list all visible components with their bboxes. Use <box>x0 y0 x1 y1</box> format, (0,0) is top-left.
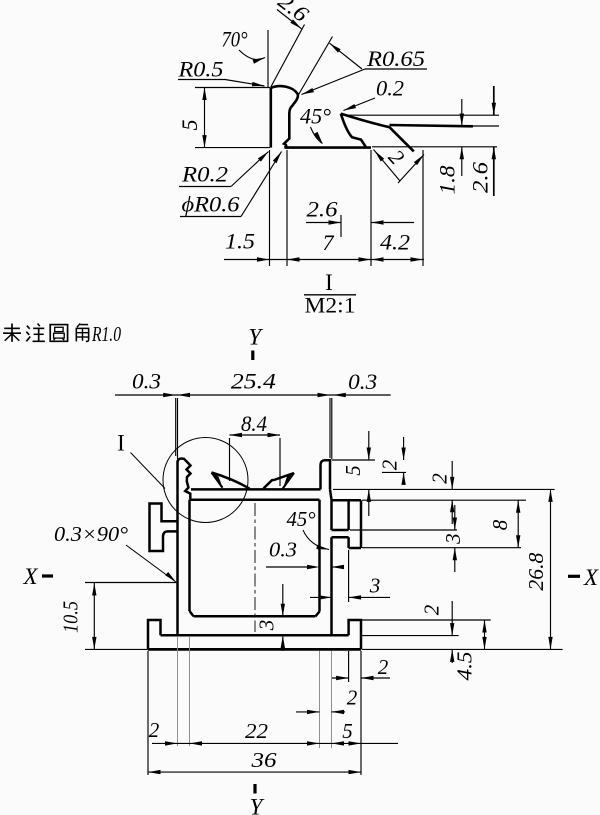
dim 0.3 right arrow <box>333 393 346 397</box>
gray ext x331.5 <box>331 651 333 748</box>
svg-text:Y: Y <box>248 325 263 350</box>
top ext lines right pair <box>329 398 331 458</box>
dim 5 bottom extension <box>195 147 270 149</box>
svg-text:3: 3 <box>369 574 381 598</box>
detail circle <box>163 438 248 523</box>
dim 26.8 <box>550 489 552 649</box>
svg-text:45°: 45° <box>287 507 317 531</box>
dim 2 seg b <box>398 155 424 184</box>
phiR0.6 leader <box>241 152 282 217</box>
flange top face <box>161 634 349 637</box>
svg-text:1.5: 1.5 <box>225 229 255 254</box>
ext line x423 <box>422 150 424 266</box>
svg-text:Y: Y <box>250 795 265 815</box>
title fraction bar <box>304 294 356 296</box>
svg-text:0.3: 0.3 <box>132 369 161 394</box>
svg-text:ϕR0.6: ϕR0.6 <box>182 192 240 217</box>
svg-text:M2:1: M2:1 <box>305 293 356 318</box>
right wall inner chamfer <box>316 612 320 617</box>
vertical centerline <box>254 503 256 632</box>
gray ext x319.5 <box>319 651 321 748</box>
detail: flap lower edge <box>341 114 366 148</box>
svg-text:I: I <box>117 431 125 456</box>
left wall outer <box>176 461 179 635</box>
slanted ext line 2 <box>298 37 333 96</box>
T neck top <box>332 529 349 532</box>
dim 3c <box>282 584 284 616</box>
R0.65 leader <box>302 69 366 95</box>
dim 8.4 ext left <box>229 438 231 481</box>
X axis right tick <box>568 575 580 578</box>
svg-text:25.4: 25.4 <box>231 369 276 394</box>
ext stub x341 <box>340 215 342 237</box>
dim 2a <box>403 437 405 460</box>
svg-text:5: 5 <box>341 465 365 476</box>
svg-text:10.5: 10.5 <box>59 601 83 633</box>
ext flange top right <box>362 635 459 637</box>
ext lip top right <box>362 619 491 621</box>
detail: lip outer edge <box>390 125 474 126</box>
ext step top <box>332 459 375 461</box>
dim 2.6 slanted arrow 2 <box>330 43 363 69</box>
ext shelf right <box>333 488 555 490</box>
R0.5 leader <box>225 80 265 87</box>
detail: plate top line <box>286 146 371 149</box>
detail: nose bulge outline <box>271 86 298 147</box>
dim 22 arrows <box>190 741 203 745</box>
svg-text:2.6: 2.6 <box>307 197 338 222</box>
svg-text:5: 5 <box>342 719 353 743</box>
svg-text:2: 2 <box>378 459 402 470</box>
svg-text:0.2: 0.2 <box>376 76 404 101</box>
top ext lines left pair <box>175 398 177 456</box>
svg-text:2: 2 <box>428 473 452 484</box>
plate right jog <box>330 489 332 499</box>
Y axis top tick <box>251 351 254 361</box>
ext neck top right <box>350 529 457 531</box>
gray ext x177.5 <box>177 637 179 746</box>
right barb <box>264 473 295 488</box>
svg-text:1.8: 1.8 <box>435 166 460 195</box>
T-flange top arm <box>332 499 362 502</box>
left barb <box>212 473 250 489</box>
0.3 main arrows <box>266 566 309 568</box>
T-bar bottom <box>349 547 361 550</box>
left C-channel <box>150 504 178 552</box>
svg-text:4.2: 4.2 <box>380 230 410 255</box>
glazing shelf line <box>191 488 321 491</box>
svg-text:7: 7 <box>323 230 335 255</box>
svg-text:X: X <box>583 565 599 590</box>
svg-text:R0.2: R0.2 <box>181 162 228 187</box>
left wall inner <box>188 500 191 611</box>
svg-text:X: X <box>22 564 38 589</box>
svg-text:I: I <box>325 270 333 295</box>
detail leader <box>131 453 166 489</box>
X axis left tick <box>42 574 53 577</box>
svg-text:2: 2 <box>149 718 160 742</box>
ext x148 low <box>147 651 149 775</box>
T-bar left face upper <box>347 500 350 530</box>
svg-text:45°: 45° <box>300 104 331 129</box>
svg-text:70°: 70° <box>222 27 248 52</box>
svg-text:0.3: 0.3 <box>348 369 377 394</box>
dim 2 left arrow <box>165 741 178 745</box>
dim 36 line <box>148 771 361 773</box>
dim 2b <box>451 461 453 489</box>
ext ceiling right <box>362 499 526 501</box>
dim 1.8 line <box>461 99 463 126</box>
svg-text:3: 3 <box>255 620 279 632</box>
flange bottom face <box>148 648 361 651</box>
svg-text:0.3: 0.3 <box>269 538 297 562</box>
svg-text:0.3×90°: 0.3×90° <box>54 522 129 546</box>
right step <box>321 460 331 489</box>
dim 3a <box>454 505 456 530</box>
dim 10.5 <box>93 583 95 649</box>
svg-text:5: 5 <box>177 120 202 131</box>
svg-text:2: 2 <box>347 686 358 710</box>
svg-text:8.4: 8.4 <box>241 411 267 436</box>
left lip <box>148 620 161 649</box>
dim 3b <box>310 596 332 598</box>
ext x348.6 low <box>348 651 350 682</box>
dim 5 line <box>204 88 206 148</box>
T-bar left face lower <box>347 537 350 548</box>
T neck bottom <box>332 536 349 539</box>
0.2 leader <box>344 98 376 111</box>
dim 3b ext <box>348 550 350 602</box>
dim 0.3 left arrow <box>163 393 176 397</box>
left wall hook <box>178 459 191 500</box>
svg-text:2: 2 <box>420 604 444 615</box>
dim 4.5 <box>484 620 486 649</box>
dim 2 ext seg a <box>374 150 401 182</box>
ext flange bottom left <box>85 648 148 650</box>
svg-text:8: 8 <box>488 519 512 530</box>
70deg extension line <box>267 30 269 87</box>
svg-text:4.5: 4.5 <box>453 652 477 681</box>
dim 2f <box>451 601 453 636</box>
ext line x287 <box>286 150 288 266</box>
dim 8 <box>517 500 519 547</box>
T-bar right face <box>360 500 363 548</box>
chamber floor <box>194 615 316 618</box>
detail: plate level extension right <box>372 146 497 148</box>
detail: lip level extension <box>473 125 499 127</box>
dim 5 top extension <box>195 87 270 89</box>
R0.2 leader <box>231 152 269 187</box>
right wall outer upper <box>330 500 333 530</box>
dim 2r1 <box>332 677 349 679</box>
svg-text:22: 22 <box>245 719 269 743</box>
gray ext x189.5 <box>189 637 191 746</box>
svg-text:R0.65: R0.65 <box>366 46 425 71</box>
bottom chain line <box>152 742 398 744</box>
dim 2.6 mid arrows <box>329 220 342 224</box>
ext line x371 <box>370 150 372 266</box>
right lip <box>349 620 361 649</box>
right wall outer lower <box>330 537 333 635</box>
dim 2 arrow a <box>375 151 385 162</box>
ext flange bottom right <box>362 648 563 650</box>
dim 2.6 slanted arrow 1 <box>277 10 302 29</box>
ext x361 low <box>360 651 362 775</box>
chamber ceiling <box>190 499 320 502</box>
dim 8.4 ext right <box>279 438 281 486</box>
svg-text:R0.5: R0.5 <box>177 57 223 82</box>
X axis left line <box>85 582 178 584</box>
detail: apex level extension <box>341 114 499 116</box>
dim 2r2 <box>296 711 320 713</box>
detail: profile left wall edge <box>269 88 272 148</box>
0.3x90 leader <box>126 545 176 582</box>
left wall inner chamfer <box>190 611 194 616</box>
dim 3c ext <box>272 615 283 617</box>
45 main arc <box>303 530 329 550</box>
45deg arc arrow <box>311 127 323 144</box>
ext line x269.5 <box>269 150 271 266</box>
svg-text:2: 2 <box>378 655 389 679</box>
70deg arc arrow <box>239 50 265 60</box>
svg-text:3: 3 <box>441 533 465 545</box>
ext bar bottom right <box>362 547 521 549</box>
note: unmarked fillets R1.0 <box>3 324 21 342</box>
bottom dim line <box>224 259 424 261</box>
dim 25.4 arrows <box>178 393 191 397</box>
svg-text:R1.0: R1.0 <box>91 322 121 346</box>
svg-text:2.6: 2.6 <box>468 162 493 193</box>
right wall inner <box>318 500 321 612</box>
svg-text:36: 36 <box>250 748 277 772</box>
detail: flap upper edge <box>341 114 414 152</box>
top dim line <box>115 394 391 396</box>
dim 5b arrows <box>332 741 345 745</box>
svg-text:26.8: 26.8 <box>524 552 548 591</box>
dim 8.4 line <box>230 434 281 436</box>
ext barb top <box>382 471 406 473</box>
dim 5 main <box>368 431 370 460</box>
slanted ext line 1 <box>271 25 305 88</box>
dim 2.6 right line <box>493 86 495 115</box>
Y axis bottom tick <box>253 784 256 794</box>
